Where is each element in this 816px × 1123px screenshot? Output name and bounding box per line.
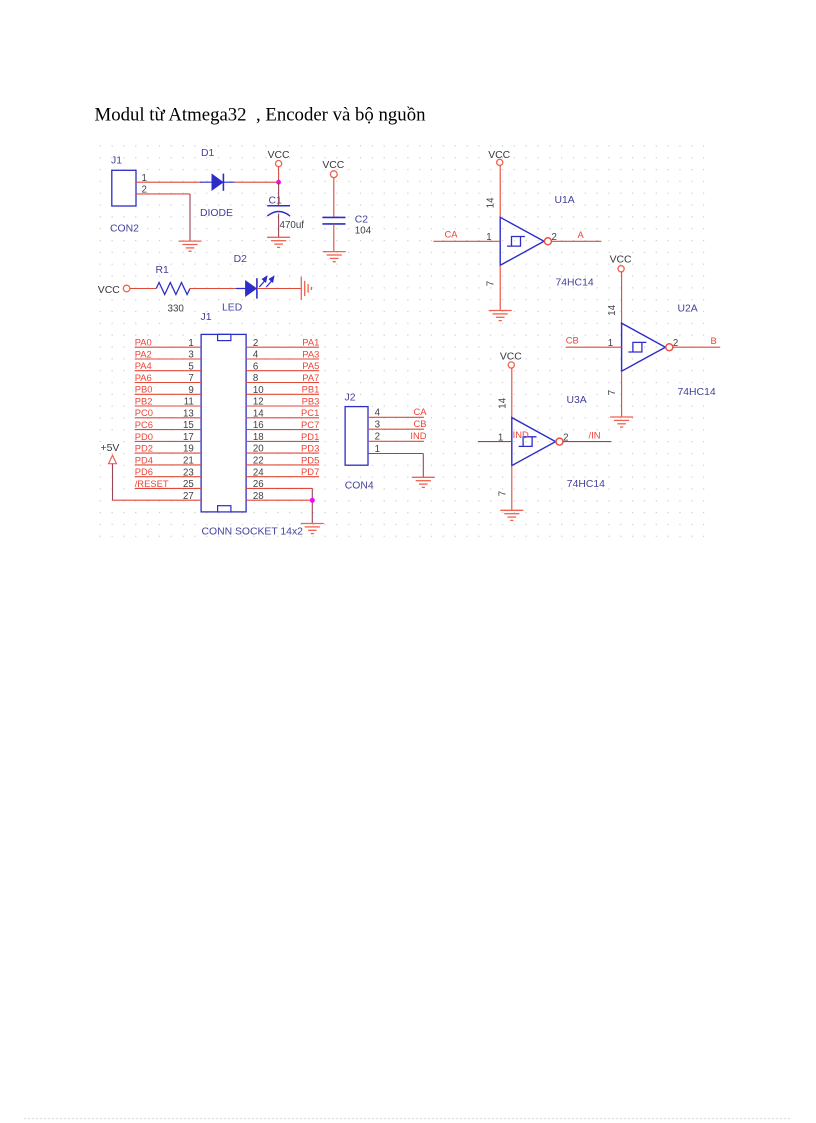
R1 value 330 xyxy=(168,304,185,315)
wire J1 pin16 net PC7 xyxy=(246,429,319,431)
svg-text:VCC: VCC xyxy=(610,254,632,265)
pin 12 number xyxy=(253,397,264,408)
svg-text:7: 7 xyxy=(486,281,497,286)
svg-text:R1: R1 xyxy=(156,265,170,276)
net label CA at J2 xyxy=(413,406,427,417)
wire U3A pin 7 to ground xyxy=(511,466,513,511)
wire J1 pin9 net PB0 xyxy=(135,393,201,395)
net label CB xyxy=(566,334,579,345)
net label PC1 xyxy=(301,407,319,418)
pin 7 number xyxy=(188,373,193,384)
U2A pin 14 number xyxy=(607,304,618,315)
wire J1 pin26 to ground bus xyxy=(246,487,312,489)
svg-text:25: 25 xyxy=(183,479,194,490)
U3A pin 1 number xyxy=(498,432,503,443)
pin 22 number xyxy=(253,456,264,467)
svg-text:12: 12 xyxy=(253,397,264,408)
U3A part number 74HC14 xyxy=(567,479,605,490)
wire J1 pin20 net PD3 xyxy=(246,452,319,454)
power symbol VCC above C2 xyxy=(322,160,344,217)
LED D2 xyxy=(236,277,274,299)
svg-text:14: 14 xyxy=(497,397,508,408)
wire J2 pin1 to ground xyxy=(368,453,423,455)
op-amp style inverter U1A (74HC14 Schmitt trigger) xyxy=(500,217,551,265)
ground below U1A xyxy=(489,311,512,321)
svg-text:2: 2 xyxy=(375,432,380,443)
svg-text:VCC: VCC xyxy=(500,351,522,362)
capacitor C1 designator xyxy=(269,196,283,207)
net label PA4 xyxy=(135,360,152,371)
U3A designator xyxy=(567,395,587,406)
svg-text:/RESET: /RESET xyxy=(135,478,169,489)
net label PA1 xyxy=(302,337,319,348)
svg-text:330: 330 xyxy=(168,304,185,315)
pin 24 number xyxy=(253,467,264,478)
svg-text:J2: J2 xyxy=(345,393,356,404)
svg-text:PB1: PB1 xyxy=(302,384,320,395)
svg-text:D2: D2 xyxy=(234,254,248,265)
net label PC7 xyxy=(301,419,319,430)
wire CON2 pin2 horizontal xyxy=(136,193,190,195)
svg-text:PA1: PA1 xyxy=(302,337,319,348)
wire input net IND to U3A pin 1 xyxy=(478,441,512,443)
svg-text:LED: LED xyxy=(222,303,242,314)
svg-text:14: 14 xyxy=(486,197,497,208)
capacitor C2 xyxy=(322,217,345,251)
wire J1 pin7 net PA6 xyxy=(135,382,201,384)
svg-text:7: 7 xyxy=(188,373,193,384)
net label PD0 xyxy=(135,431,153,442)
net label /RESET xyxy=(135,478,169,489)
pin 18 number xyxy=(253,432,264,443)
U3A pin 7 number xyxy=(497,491,508,496)
U2A designator xyxy=(678,304,698,315)
pin 23 number xyxy=(183,467,194,478)
wire J1 pin8 net PA7 xyxy=(246,382,319,384)
svg-text:1: 1 xyxy=(486,232,491,243)
wire J2 pin4 net CA xyxy=(368,416,424,418)
wire U2A pin 2 output net B xyxy=(672,346,720,348)
ground below C2 xyxy=(323,252,346,262)
CON4 value label xyxy=(345,480,374,491)
J2 pin 1 number xyxy=(375,444,380,455)
net label PD1 xyxy=(301,431,319,442)
wire VCC to U2A pin 14 xyxy=(621,272,623,323)
net label PD5 xyxy=(301,454,319,465)
svg-text:10: 10 xyxy=(253,385,264,396)
pin 3 number xyxy=(188,350,193,361)
U1A designator xyxy=(555,195,575,206)
svg-text:2: 2 xyxy=(673,338,678,349)
power symbol VCC at R1 input xyxy=(98,285,156,296)
op-amp style inverter U3A (74HC14 Schmitt trigger) xyxy=(512,418,563,466)
svg-text:CA: CA xyxy=(413,406,427,417)
svg-text:14: 14 xyxy=(253,408,264,419)
ground below C1 xyxy=(267,237,290,247)
svg-text:CON2: CON2 xyxy=(110,224,139,235)
wire U1A pin 2 output net A xyxy=(551,240,601,242)
svg-text:PD0: PD0 xyxy=(135,431,153,442)
svg-text:PA0: PA0 xyxy=(135,337,152,348)
ground (rotated) right of LED xyxy=(301,277,311,300)
svg-text:6: 6 xyxy=(253,361,258,372)
wire input net CA to U1A pin 1 xyxy=(434,240,501,242)
svg-text:104: 104 xyxy=(355,225,372,236)
net label PC6 xyxy=(135,419,153,430)
pin 10 number xyxy=(253,385,264,396)
wire J1 pin23 net PD6 xyxy=(135,476,201,478)
svg-text:U2A: U2A xyxy=(678,304,698,315)
svg-text:PB2: PB2 xyxy=(135,395,153,406)
U2A part number 74HC14 xyxy=(678,387,716,398)
svg-text:13: 13 xyxy=(183,408,194,419)
svg-text:1: 1 xyxy=(608,338,613,349)
svg-text:/IN: /IN xyxy=(589,429,601,440)
net label IND at J2 xyxy=(410,430,426,441)
power symbol VCC above D1 output xyxy=(268,150,290,182)
wire J1 pin6 net PA5 xyxy=(246,370,319,372)
svg-text:28: 28 xyxy=(253,491,264,502)
pin 28 number xyxy=(253,491,264,502)
pin 25 number xyxy=(183,479,194,490)
svg-text:17: 17 xyxy=(183,432,194,443)
net label PA3 xyxy=(302,348,319,359)
U3A pin 2 number xyxy=(563,432,568,443)
ground below U2A xyxy=(610,417,633,427)
svg-text:CB: CB xyxy=(566,334,579,345)
wire J1 pin17 net PD0 xyxy=(135,440,201,442)
svg-text:21: 21 xyxy=(183,456,194,467)
U1A pin 14 number xyxy=(486,197,497,208)
svg-text:PD3: PD3 xyxy=(301,443,319,454)
diode D1 xyxy=(200,174,235,191)
pin 2 number xyxy=(253,338,258,349)
svg-text:PB3: PB3 xyxy=(302,395,320,406)
capacitor C1 (polarized) xyxy=(267,182,290,237)
svg-text:C1: C1 xyxy=(269,196,283,207)
svg-text:9: 9 xyxy=(188,385,193,396)
net label PA5 xyxy=(302,360,319,371)
pin 2 number of CON2 xyxy=(142,184,147,195)
wire input net CB to U2A pin 1 xyxy=(566,346,622,348)
svg-text:24: 24 xyxy=(253,467,264,478)
svg-text:11: 11 xyxy=(184,397,194,408)
C1 value 470uf xyxy=(280,220,305,231)
pin 14 number xyxy=(253,408,264,419)
svg-text:PC1: PC1 xyxy=(301,407,319,418)
net label PD6 xyxy=(135,466,153,477)
pin 16 number xyxy=(253,420,264,431)
U2A pin 7 number xyxy=(607,390,618,395)
svg-text:4: 4 xyxy=(375,408,381,419)
wire J2 pin3 net CB xyxy=(368,428,424,430)
net label PB2 xyxy=(135,395,153,406)
svg-text:16: 16 xyxy=(253,420,264,431)
LED D2 designator xyxy=(234,254,248,265)
svg-text:J1: J1 xyxy=(201,312,212,323)
wire J2 pin2 net IND xyxy=(368,440,424,442)
wire D1 cathode to VCC junction xyxy=(235,181,279,183)
svg-text:J1: J1 xyxy=(111,156,122,167)
svg-text:PD5: PD5 xyxy=(301,454,319,465)
U1A pin 2 number xyxy=(552,232,557,243)
wire CON2 pin1 to diode D1 anode xyxy=(136,181,202,183)
svg-text:C2: C2 xyxy=(355,215,369,226)
net label PB3 xyxy=(302,395,320,406)
svg-text:27: 27 xyxy=(183,491,194,502)
net label PD7 xyxy=(301,466,319,477)
CONN SOCKET 14x2 value label xyxy=(202,527,304,538)
svg-text:PA5: PA5 xyxy=(302,360,319,371)
svg-text:+5V: +5V xyxy=(101,443,120,454)
pin 5 number xyxy=(188,361,193,372)
svg-text:CON4: CON4 xyxy=(345,480,374,491)
svg-text:U1A: U1A xyxy=(555,195,575,206)
pin 11 number xyxy=(184,397,194,408)
wire +5V drop to pin27 row xyxy=(112,464,114,501)
U1A pin 7 number xyxy=(486,281,497,286)
diode D1 designator xyxy=(201,148,215,159)
svg-text:2: 2 xyxy=(253,338,258,349)
svg-text:7: 7 xyxy=(497,491,508,496)
net label PA6 xyxy=(135,372,152,383)
svg-text:22: 22 xyxy=(253,456,264,467)
LED value label xyxy=(222,303,242,314)
CON2 value label xyxy=(110,224,139,235)
svg-text:23: 23 xyxy=(183,467,194,478)
svg-text:PA3: PA3 xyxy=(302,348,319,359)
U3A pin 14 number xyxy=(497,397,508,408)
J2 pin 2 number xyxy=(375,432,380,443)
svg-text:2: 2 xyxy=(563,432,568,443)
pin 26 number xyxy=(253,479,264,490)
wire VCC to U1A pin 14 xyxy=(499,166,501,218)
svg-text:PC6: PC6 xyxy=(135,419,153,430)
svg-text:U3A: U3A xyxy=(567,395,587,406)
wire R1 to LED D2 anode xyxy=(190,288,245,290)
pin 8 number xyxy=(253,373,258,384)
svg-text:PA2: PA2 xyxy=(135,348,152,359)
resistor R1 xyxy=(156,283,190,295)
resistor R1 designator xyxy=(156,265,170,276)
net label PA2 xyxy=(135,348,152,359)
svg-text:PC7: PC7 xyxy=(301,419,319,430)
net label IND xyxy=(513,429,529,440)
wire J1 pin22 net PD5 xyxy=(246,464,319,466)
svg-text:8: 8 xyxy=(253,373,258,384)
svg-text:74HC14: 74HC14 xyxy=(567,479,605,490)
svg-text:5: 5 xyxy=(188,361,193,372)
connector J1 socket designator xyxy=(201,312,212,323)
power symbol VCC above U2A xyxy=(610,254,632,272)
net label PA0 xyxy=(135,337,152,348)
pin 1 number xyxy=(188,338,193,349)
op-amp style inverter U2A (74HC14 Schmitt trigger) xyxy=(622,323,673,371)
svg-text:19: 19 xyxy=(183,444,194,455)
pin 17 number xyxy=(183,432,194,443)
net label CB at J2 xyxy=(413,418,426,429)
connector J1 CON2 body xyxy=(112,170,136,206)
wire CON2 pin2 drop to ground xyxy=(189,194,191,241)
wire J1 pin15 net PC6 xyxy=(135,429,201,431)
connector J1 socket body CONN SOCKET 14x2 xyxy=(201,334,246,512)
net label A xyxy=(578,229,585,240)
net label PB1 xyxy=(302,384,320,395)
wire J1 pin14 net PC1 xyxy=(246,417,319,419)
wire J1 pin1 net PA0 xyxy=(135,346,201,348)
wire J1 pin4 net PA3 xyxy=(246,358,319,360)
power symbol VCC above U1A xyxy=(488,150,510,165)
svg-text:1: 1 xyxy=(188,338,193,349)
svg-text:20: 20 xyxy=(253,444,264,455)
wire J1 pin2 net PA1 xyxy=(246,346,319,348)
wire J1 pin24 net PD7 xyxy=(246,476,319,478)
svg-text:1: 1 xyxy=(375,444,380,455)
wire J1 pin10 net PB1 xyxy=(246,393,319,395)
wire J1 pin5 net PA4 xyxy=(135,370,201,372)
net label PA7 xyxy=(302,372,319,383)
wire J1 pin18 net PD1 xyxy=(246,440,319,442)
ground below J1 pin28 xyxy=(301,524,324,534)
connector J2 designator xyxy=(345,393,356,404)
wire LED cathode to ground xyxy=(257,288,301,290)
wire U1A pin 7 to ground xyxy=(499,265,501,310)
svg-text:CA: CA xyxy=(445,229,459,240)
svg-text:14: 14 xyxy=(607,304,618,315)
power symbol VCC above U3A xyxy=(500,351,522,368)
U1A pin 1 number xyxy=(486,232,491,243)
pin 1 number of CON2 xyxy=(142,173,147,184)
pin 19 number xyxy=(183,444,194,455)
svg-text:PD1: PD1 xyxy=(301,431,319,442)
svg-text:PA6: PA6 xyxy=(135,372,152,383)
pin 21 number xyxy=(183,456,194,467)
wire VCC to U3A pin 14 xyxy=(511,368,513,418)
pin 13 number xyxy=(183,408,194,419)
pin 6 number xyxy=(253,361,258,372)
pin 27 number xyxy=(183,491,194,502)
wire J1 pin13 net PC0 xyxy=(135,417,201,419)
svg-text:VCC: VCC xyxy=(98,285,120,296)
svg-text:DIODE: DIODE xyxy=(200,208,233,219)
svg-text:3: 3 xyxy=(188,350,193,361)
capacitor C2 designator xyxy=(355,215,369,226)
svg-text:4: 4 xyxy=(253,350,259,361)
net label PD4 xyxy=(135,454,153,465)
wire J1 pin25 net /RESET xyxy=(135,487,201,489)
svg-text:Modul từ Atmega32 , Encoder v: Modul từ Atmega32 , Encoder và bộ nguồn xyxy=(95,105,427,126)
connector J2 body xyxy=(345,407,368,466)
U2A pin 2 number xyxy=(673,338,678,349)
svg-text:A: A xyxy=(578,229,585,240)
wire U2A pin 7 to ground xyxy=(621,371,623,417)
DIODE value label xyxy=(200,208,233,219)
net label PB0 xyxy=(135,384,153,395)
svg-text:7: 7 xyxy=(607,390,618,395)
svg-text:18: 18 xyxy=(253,432,264,443)
wire J1 pin12 net PB3 xyxy=(246,405,319,407)
ground below CON2 pin2 xyxy=(179,241,202,251)
net label /IN xyxy=(589,429,601,440)
net label CA xyxy=(445,229,459,240)
svg-text:VCC: VCC xyxy=(322,160,344,171)
ground below J2 pin1 xyxy=(412,477,435,487)
net label PD2 xyxy=(135,443,153,454)
svg-text:1: 1 xyxy=(498,432,503,443)
J2 pin 4 number xyxy=(375,408,381,419)
pin 4 number xyxy=(253,350,259,361)
net label PD3 xyxy=(301,443,319,454)
junction node at VCC / D1 / C1 xyxy=(276,180,281,185)
power symbol +5V xyxy=(101,443,120,464)
wire J1 pin28 to ground bus xyxy=(246,499,312,501)
connector J1 (CON2) label xyxy=(111,156,122,167)
J2 pin 3 number xyxy=(375,420,380,431)
svg-text:IND: IND xyxy=(513,429,529,440)
svg-text:PD4: PD4 xyxy=(135,454,153,465)
svg-text:470uf: 470uf xyxy=(280,220,305,231)
wire J1 pin21 net PD4 xyxy=(135,464,201,466)
U1A part number 74HC14 xyxy=(556,278,594,289)
svg-text:74HC14: 74HC14 xyxy=(678,387,716,398)
svg-text:15: 15 xyxy=(183,420,194,431)
svg-text:2: 2 xyxy=(552,232,557,243)
svg-text:74HC14: 74HC14 xyxy=(556,278,594,289)
svg-text:PB0: PB0 xyxy=(135,384,153,395)
net label B xyxy=(711,335,717,346)
svg-text:PC0: PC0 xyxy=(135,407,153,418)
svg-text:PD6: PD6 xyxy=(135,466,153,477)
junction node pin26/pin28 ground bus xyxy=(310,498,315,503)
net label PC0 xyxy=(135,407,153,418)
svg-text:CONN SOCKET 14x2: CONN SOCKET 14x2 xyxy=(202,527,304,538)
svg-text:D1: D1 xyxy=(201,148,215,159)
pin 20 number xyxy=(253,444,264,455)
svg-text:VCC: VCC xyxy=(268,150,290,161)
wire J1 pin11 net PB2 xyxy=(135,405,201,407)
wire U3A pin 2 output net /IN xyxy=(563,441,612,443)
svg-text:CB: CB xyxy=(413,418,426,429)
svg-text:IND: IND xyxy=(410,430,426,441)
svg-text:B: B xyxy=(711,335,717,346)
U2A pin 1 number xyxy=(608,338,613,349)
svg-text:PD2: PD2 xyxy=(135,443,153,454)
wire J1 pin26 drop to pin28 xyxy=(311,488,313,523)
ground below U3A xyxy=(500,510,523,520)
wire J1 pin27 to +5V xyxy=(113,499,202,501)
svg-text:PA4: PA4 xyxy=(135,360,152,371)
pin 9 number xyxy=(188,385,193,396)
wire J2 pin1 drop xyxy=(422,454,424,478)
svg-text:3: 3 xyxy=(375,420,380,431)
svg-text:PA7: PA7 xyxy=(302,372,319,383)
svg-text:26: 26 xyxy=(253,479,264,490)
wire J1 pin19 net PD2 xyxy=(135,452,201,454)
C2 value 104 xyxy=(355,225,372,236)
pin 15 number xyxy=(183,420,194,431)
svg-text:PD7: PD7 xyxy=(301,466,319,477)
wire J1 pin3 net PA2 xyxy=(135,358,201,360)
